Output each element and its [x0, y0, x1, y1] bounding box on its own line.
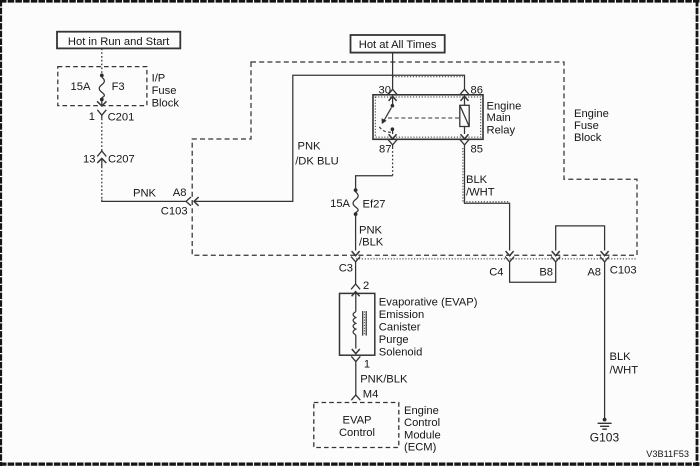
svg-text:B8: B8	[539, 266, 553, 278]
wire PNK horizontal to C103 A8	[102, 200, 186, 202]
junction dot at fuse F3 top	[100, 74, 104, 78]
wire: B8 up and over to A8	[556, 226, 605, 251]
wire PNK/BLK: Ef27 to C3	[355, 216, 357, 251]
label: Evaporative (EVAP) Emission Canister Purge Solenoid	[379, 296, 478, 358]
relay switch	[391, 104, 395, 108]
svg-text:Block: Block	[574, 132, 602, 144]
fuse block jumper C4 to B8 (U link)	[510, 262, 556, 282]
wire: C3 to solenoid pin 2	[355, 264, 357, 284]
svg-text:Emission: Emission	[379, 309, 424, 321]
svg-text:Hot in Run and Start: Hot in Run and Start	[68, 36, 170, 48]
text: EVAP Control	[339, 415, 375, 440]
arrow down from fuse F3	[101, 101, 103, 106]
svg-text:BLK: BLK	[610, 351, 632, 363]
svg-text:C4: C4	[489, 266, 503, 278]
relay box: Engine Main Relay	[373, 95, 483, 140]
relay link switch-coil (dashed)	[388, 117, 460, 119]
engine fuse block boundary (dashed)	[192, 62, 637, 255]
relay pin 85 (cup)	[460, 140, 469, 145]
EVAP solenoid box	[340, 293, 375, 355]
svg-text:Ef27: Ef27	[363, 199, 386, 211]
svg-text:(ECM): (ECM)	[404, 441, 437, 453]
label: I/P Fuse Block	[152, 73, 180, 110]
page frame top	[0, 0, 700, 3]
label: Engine Main Relay	[487, 100, 522, 136]
switch travel arc (dashed)	[379, 127, 391, 132]
wire: C207 down to corner (dotted)	[101, 167, 103, 201]
svg-text:C207: C207	[108, 154, 135, 166]
svg-text:Evaporative (EVAP): Evaporative (EVAP)	[379, 296, 478, 308]
svg-text:Hot at All Times: Hot at All Times	[359, 39, 437, 51]
svg-text:BLK: BLK	[466, 174, 488, 186]
connector A8 / C103 (right, cup)	[600, 257, 609, 262]
wire: Hot at All Times to relay pin 30	[392, 53, 394, 90]
svg-text:PNK/BLK: PNK/BLK	[360, 373, 408, 385]
highlight dots along BLK/WHT	[462, 148, 464, 202]
highlight dots along PNK/DK BLU	[393, 76, 463, 78]
wire: Hot in Run and Start down to fuse F3 (dotted)	[101, 48, 103, 74]
svg-text:A8: A8	[173, 187, 187, 199]
svg-text:/BLK: /BLK	[359, 236, 384, 248]
svg-text:C103: C103	[610, 265, 637, 277]
connector C201 pin 1 (cup)	[97, 110, 106, 115]
wire BLK/WHT: A8 to ground	[604, 262, 606, 419]
svg-text:Canister: Canister	[379, 321, 421, 333]
svg-text:/WHT: /WHT	[466, 186, 495, 198]
label: PNK /DK BLU	[295, 140, 339, 167]
connector C3 (cup)	[351, 257, 360, 262]
connector C4 (cup)	[505, 257, 514, 262]
I/P fuse block dashed box	[58, 67, 147, 106]
svg-text:C103: C103	[161, 205, 188, 217]
relay pin 86 (cup + arrow)	[460, 89, 469, 94]
fuse Ef27 element	[353, 192, 358, 212]
svg-text:85: 85	[471, 143, 483, 155]
page frame right	[696, 0, 699, 466]
solenoid core	[362, 311, 364, 336]
label: 15A fuse F3	[71, 81, 125, 93]
relay coil	[460, 105, 469, 126]
svg-text:EVAP: EVAP	[342, 415, 371, 427]
power feed box: Hot at All Times	[351, 35, 445, 53]
svg-text:PNK: PNK	[133, 188, 157, 200]
svg-text:Block: Block	[152, 98, 180, 110]
highlight dots under fuse block boundary	[356, 258, 637, 260]
svg-text:Solenoid: Solenoid	[379, 346, 423, 358]
svg-text:C201: C201	[108, 112, 135, 124]
svg-text:Control: Control	[339, 427, 375, 439]
connector M4 (cup)	[351, 395, 360, 400]
page frame left	[0, 0, 2, 466]
wire: jog left to fuse Ef27	[356, 176, 393, 189]
svg-text:Fuse: Fuse	[152, 85, 177, 97]
svg-text:30: 30	[379, 84, 391, 96]
wire to solenoid pin 1 + arrow	[355, 335, 357, 349]
wire PNK/BLK: pin 1 to M4	[355, 364, 357, 395]
highlight dotted rect inside relay	[375, 97, 480, 137]
svg-text:PNK: PNK	[359, 224, 383, 236]
svg-text:13: 13	[83, 154, 95, 166]
wire: C201 to C207 (dotted)	[101, 119, 103, 151]
svg-text:/WHT: /WHT	[610, 364, 639, 376]
svg-text:Module: Module	[404, 429, 441, 441]
solenoid coil	[353, 312, 356, 335]
junction dot at fuse F3 bottom	[100, 98, 104, 102]
svg-text:2: 2	[363, 280, 369, 292]
relay pin 87 (cup)	[388, 140, 397, 145]
fuse F3 element	[99, 77, 104, 97]
label: Engine Control Module (ECM)	[404, 405, 441, 453]
svg-text:Fuse: Fuse	[574, 120, 599, 132]
svg-text:A8: A8	[587, 266, 601, 278]
label: 15A fuse Ef27	[330, 198, 385, 210]
connector C103 pin A8 (left, cup + arrow)	[186, 197, 191, 206]
wire BLK/WHT: relay 85 to C4	[465, 147, 510, 250]
svg-text:F3: F3	[112, 81, 125, 93]
relay pin 30 (cup + arrow)	[388, 89, 397, 94]
svg-text:86: 86	[471, 84, 483, 96]
svg-text:1: 1	[89, 111, 95, 123]
connector C207 pin 13 (cup + arrow)	[97, 151, 106, 156]
svg-text:Engine: Engine	[487, 100, 522, 112]
ground G103	[603, 418, 607, 422]
svg-text:C3: C3	[339, 262, 353, 274]
page frame bottom	[0, 463, 700, 466]
svg-text:Purge: Purge	[379, 334, 409, 346]
svg-text:1: 1	[364, 358, 370, 370]
svg-text:15A: 15A	[330, 198, 350, 210]
svg-text:87: 87	[379, 143, 391, 155]
svg-text:Engine: Engine	[574, 108, 609, 120]
svg-text:15A: 15A	[71, 81, 91, 93]
power feed box: Hot in Run and Start	[57, 32, 180, 49]
svg-text:Relay: Relay	[487, 125, 516, 137]
junction dot at fuse Ef27 top	[354, 188, 358, 192]
solenoid pin 2 (cup + arrow)	[351, 284, 360, 289]
solenoid pin 1 (cup)	[351, 356, 360, 361]
svg-text:I/P: I/P	[152, 73, 166, 85]
svg-text:Engine: Engine	[404, 405, 439, 417]
junction dot at fuse Ef27 bottom	[354, 212, 358, 216]
svg-text:V3B11F53: V3B11F53	[646, 449, 689, 459]
svg-text:G103: G103	[590, 431, 620, 445]
svg-text:/DK BLU: /DK BLU	[295, 155, 339, 167]
label: Engine Fuse Block	[574, 108, 609, 144]
wire PNK/DK BLU: A8 to relay pin 86	[194, 75, 465, 201]
svg-text:PNK: PNK	[298, 140, 322, 152]
svg-text:Main: Main	[487, 112, 511, 124]
ECM dashed box	[314, 403, 399, 448]
svg-text:Control: Control	[404, 417, 440, 429]
wire: relay 87 down (dotted)	[392, 147, 394, 175]
connector B8 (cup)	[551, 257, 560, 262]
svg-text:M4: M4	[363, 388, 379, 400]
